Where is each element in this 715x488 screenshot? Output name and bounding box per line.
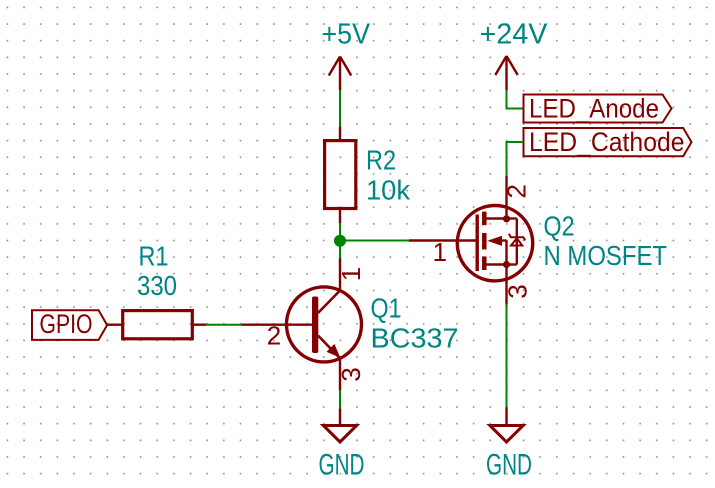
svg-text:2: 2 [267, 321, 281, 351]
svg-text:+24V: +24V [480, 19, 549, 51]
svg-text:R1: R1 [139, 241, 169, 272]
svg-text:N MOSFET: N MOSFET [544, 240, 668, 271]
svg-text:BC337: BC337 [371, 323, 459, 354]
svg-text:2: 2 [502, 184, 532, 198]
wire junction to Q2 gate [340, 240, 409, 242]
svg-text:LED_Anode: LED_Anode [529, 94, 659, 124]
svg-text:330: 330 [137, 270, 177, 301]
svg-text:GPIO: GPIO [40, 309, 93, 339]
global label LED_Anode [524, 94, 672, 124]
svg-text:+5V: +5V [322, 19, 371, 51]
ground (left) [323, 409, 356, 443]
svg-text:1: 1 [336, 267, 366, 281]
wire Q2 source to GND [506, 305, 508, 408]
wire +5V to R2 [339, 90, 341, 127]
global label LED_Cathode [524, 127, 692, 157]
resistor R1 [107, 311, 206, 339]
svg-text:GND: GND [319, 449, 365, 482]
svg-text:GND: GND [486, 449, 532, 482]
global label GPIO [32, 309, 107, 340]
resistor R2 [325, 127, 356, 224]
svg-text:10k: 10k [366, 175, 411, 206]
svg-text:Q1: Q1 [371, 293, 402, 324]
svg-text:LED_Cathode: LED_Cathode [529, 127, 685, 157]
ground (right) [490, 408, 523, 443]
wire R1 to Q1 base [206, 324, 241, 326]
wire +24V to LED_Anode [507, 90, 524, 109]
svg-text:Q2: Q2 [544, 211, 575, 242]
transistor Q2 (N-MOSFET) [409, 176, 533, 305]
power symbol +5V [329, 57, 351, 91]
svg-text:1: 1 [433, 237, 447, 267]
wire LED_Cathode to Q2 drain [507, 142, 524, 176]
svg-text:3: 3 [503, 284, 533, 298]
wire R2 to Q1 collector [339, 223, 341, 259]
power symbol +24V [495, 56, 517, 90]
junction [334, 235, 346, 247]
svg-text:3: 3 [336, 367, 366, 381]
wire Q1 emitter to GND [339, 390, 341, 409]
svg-text:R2: R2 [366, 145, 396, 176]
transistor Q1 [241, 258, 361, 390]
